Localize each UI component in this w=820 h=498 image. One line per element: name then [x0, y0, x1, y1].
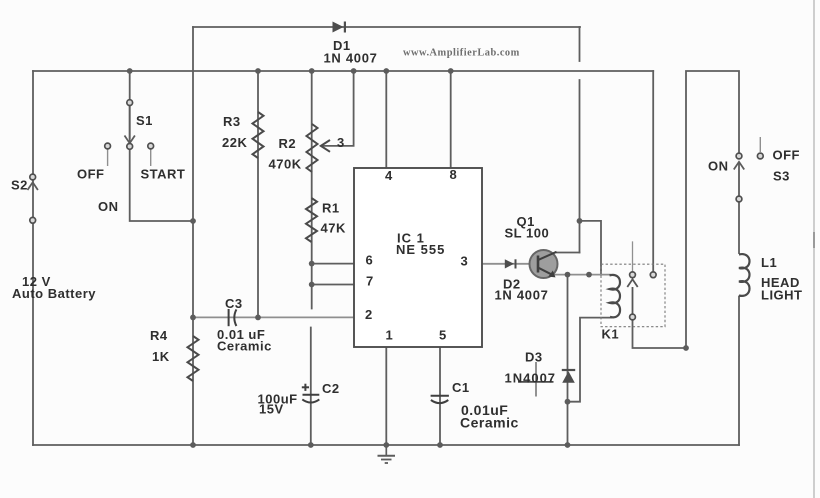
svg-text:7: 7	[366, 274, 374, 289]
relay terminal NO	[650, 272, 656, 278]
svg-text:OFF: OFF	[773, 148, 801, 163]
wire main supply rail	[33, 70, 653, 72]
relay K1 arm	[627, 279, 637, 314]
svg-text:Auto Battery: Auto Battery	[12, 286, 96, 301]
svg-text:47K: 47K	[321, 221, 346, 236]
wire S1 to ON corner	[130, 146, 193, 221]
wire pin 3 to Q1 base	[482, 263, 530, 265]
wire top loop right leg upper	[579, 27, 581, 61]
wire R1 to C2	[310, 328, 312, 446]
node pin4 top	[383, 68, 389, 74]
svg-text:1N4007: 1N4007	[505, 371, 557, 386]
resistor R1	[306, 198, 317, 242]
wire relay NO leg	[652, 71, 654, 272]
svg-text:R1: R1	[322, 201, 340, 216]
wire S1 branch from rail	[129, 71, 131, 146]
wire coil return	[568, 318, 612, 402]
wire Q1 collector	[556, 252, 580, 254]
svg-text:START: START	[141, 167, 186, 182]
wire pin 6	[312, 263, 354, 265]
diode D2	[505, 259, 517, 268]
relay K1 box	[601, 264, 665, 327]
node emitter coil	[586, 272, 592, 278]
wire top loop left leg	[192, 27, 194, 221]
diode D3	[562, 369, 575, 383]
wire bottom ground rail	[33, 444, 739, 446]
wire C3 row to pin 2	[193, 316, 354, 318]
IC U1 NE555 box	[354, 168, 482, 347]
resistor R3	[253, 112, 264, 158]
svg-text:4: 4	[385, 168, 393, 183]
node R3 bottom	[255, 315, 261, 321]
svg-text:R2: R2	[279, 136, 297, 151]
svg-text:1K: 1K	[152, 349, 170, 364]
svg-text:C1: C1	[452, 380, 470, 395]
svg-text:3: 3	[461, 254, 469, 269]
stray lead line through D3 label	[535, 362, 537, 397]
wire right top bar	[686, 71, 739, 348]
svg-text:D3: D3	[525, 350, 543, 365]
svg-text:22K: 22K	[222, 135, 247, 150]
svg-text:C3: C3	[225, 296, 243, 311]
wire relay common to node	[633, 320, 687, 348]
wire top loop right leg lower	[579, 80, 581, 253]
node collector branch	[577, 218, 583, 224]
wire S3 to L1	[738, 202, 740, 253]
node R4 bottom	[190, 442, 196, 448]
svg-text:S3: S3	[773, 169, 790, 184]
capacitor C2	[302, 384, 320, 403]
svg-text:L1: L1	[761, 255, 777, 270]
pot wiper arrow	[321, 140, 330, 152]
switch S1	[105, 100, 154, 166]
node pin8 top	[448, 68, 454, 74]
relay terminal common bottom	[630, 314, 636, 320]
ground	[378, 445, 396, 463]
svg-text:R4: R4	[150, 328, 168, 343]
relay terminal common top	[630, 272, 636, 278]
svg-text:ON: ON	[708, 159, 729, 174]
svg-text:LIGHT: LIGHT	[761, 288, 803, 303]
node S1 top	[127, 68, 133, 74]
wire pot wiper	[322, 71, 354, 146]
underline under D3 value	[518, 381, 554, 383]
wire collector branch to relay coil	[580, 221, 602, 275]
node C1 bottom	[437, 442, 443, 448]
resistor R4	[188, 336, 199, 381]
wire Q1 emitter to coil	[554, 274, 610, 276]
svg-text:Ceramic: Ceramic	[217, 339, 272, 354]
svg-text:S2: S2	[11, 178, 28, 193]
svg-text:470K: 470K	[269, 157, 302, 172]
transistor Q1	[530, 250, 558, 278]
svg-text:ON: ON	[98, 199, 119, 214]
wire pin 4	[385, 71, 387, 168]
svg-text:3: 3	[337, 135, 345, 150]
relay K1 coil	[610, 275, 621, 317]
wire pin 7	[312, 284, 354, 286]
wire pin 1	[385, 347, 387, 445]
wire D3 branch	[567, 275, 569, 445]
svg-text:C2: C2	[322, 381, 340, 396]
node relay common	[683, 345, 689, 351]
svg-text:1N 4007: 1N 4007	[495, 288, 549, 303]
node wiper top	[351, 68, 357, 74]
svg-text:2: 2	[365, 307, 373, 322]
node C2 bottom	[308, 442, 314, 448]
right edge artifact	[813, 0, 815, 498]
svg-text:SL 100: SL 100	[505, 226, 550, 241]
wire R4 branch	[192, 221, 194, 445]
node R3 top	[255, 68, 261, 74]
node R2 top	[309, 68, 315, 74]
capacitor C3	[229, 309, 237, 326]
wire left battery vertical	[32, 71, 34, 445]
diode D1	[333, 22, 347, 33]
wire L1 to bottom	[738, 297, 740, 446]
inductor L1	[739, 254, 750, 296]
node ground	[383, 442, 389, 448]
svg-text:OFF: OFF	[77, 167, 105, 182]
svg-text:R3: R3	[223, 114, 241, 129]
node pin6	[309, 261, 315, 267]
capacitor C1	[431, 396, 449, 403]
wire R2 R1 chain	[311, 71, 313, 309]
svg-text:1N 4007: 1N 4007	[324, 51, 378, 66]
svg-text:15V: 15V	[259, 402, 284, 417]
svg-text:www.AmplifierLab.com: www.AmplifierLab.com	[403, 48, 520, 59]
node D3 coil return	[565, 399, 571, 405]
wire top D1 loop horizontal	[193, 26, 580, 28]
switch S2	[28, 174, 38, 223]
wire relay arm stem	[632, 242, 634, 272]
svg-text:6: 6	[366, 253, 374, 268]
svg-text:5: 5	[439, 328, 447, 343]
switch S3	[734, 137, 763, 202]
node ON junction	[190, 218, 196, 224]
resistor R2 potentiometer	[307, 124, 331, 172]
svg-text:1: 1	[386, 328, 394, 343]
svg-text:S1: S1	[136, 113, 153, 128]
wire R3 branch	[257, 71, 259, 317]
node pin7	[309, 282, 315, 288]
node D3 bottom	[565, 442, 571, 448]
wire pin 8	[450, 71, 452, 168]
node C3 left	[190, 315, 196, 321]
svg-text:8: 8	[450, 167, 458, 182]
svg-text:Ceramic: Ceramic	[460, 415, 519, 431]
svg-text:K1: K1	[602, 327, 620, 342]
node emitter D3	[565, 272, 571, 278]
wire pin 5 C1	[439, 347, 441, 445]
svg-text:NE 555: NE 555	[396, 242, 445, 257]
